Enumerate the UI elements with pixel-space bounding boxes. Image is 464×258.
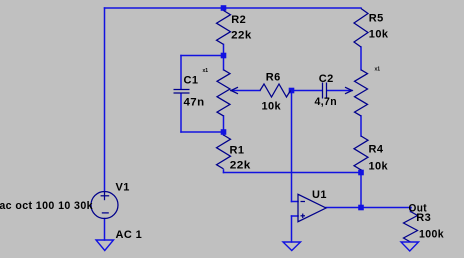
- svg-text:47n: 47n: [184, 97, 205, 109]
- svg-text:x1: x1: [375, 67, 381, 73]
- svg-text:22k: 22k: [230, 160, 252, 172]
- svg-text:22k: 22k: [231, 29, 252, 41]
- svg-text:100k: 100k: [419, 228, 444, 240]
- svg-text:R5: R5: [369, 13, 384, 25]
- svg-text:R1: R1: [230, 145, 245, 157]
- svg-text:10k: 10k: [369, 29, 389, 41]
- svg-text:AC 1: AC 1: [116, 229, 143, 241]
- svg-text:4,7n: 4,7n: [315, 96, 338, 108]
- svg-text:V1: V1: [116, 182, 130, 194]
- svg-text:x1: x1: [203, 68, 209, 74]
- svg-text:C2: C2: [319, 73, 334, 85]
- svg-text:.ac oct 100 10 30k: .ac oct 100 10 30k: [0, 200, 93, 212]
- svg-text:10k: 10k: [262, 101, 282, 113]
- svg-text:R3: R3: [416, 212, 431, 224]
- svg-text:R2: R2: [231, 14, 246, 26]
- svg-text:C1: C1: [184, 75, 199, 87]
- svg-text:10k: 10k: [369, 161, 389, 173]
- svg-text:U1: U1: [312, 189, 327, 201]
- svg-text:R4: R4: [369, 144, 384, 156]
- svg-text:R6: R6: [266, 72, 281, 84]
